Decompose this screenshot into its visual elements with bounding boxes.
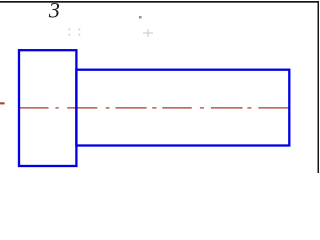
stray mark dot (139, 16, 142, 19)
svg-text:3: 3 (48, 0, 60, 22)
top border line (0, 1, 319, 3)
stray mark cluster dots (69, 29, 81, 36)
right border line (318, 1, 320, 173)
bolt head rectangle (19, 50, 76, 166)
centerline (dash-dot) (19, 107, 288, 109)
left edge red mark (0, 102, 5, 104)
bolt shaft rectangle (76, 70, 289, 146)
stray mark cross (143, 29, 153, 37)
